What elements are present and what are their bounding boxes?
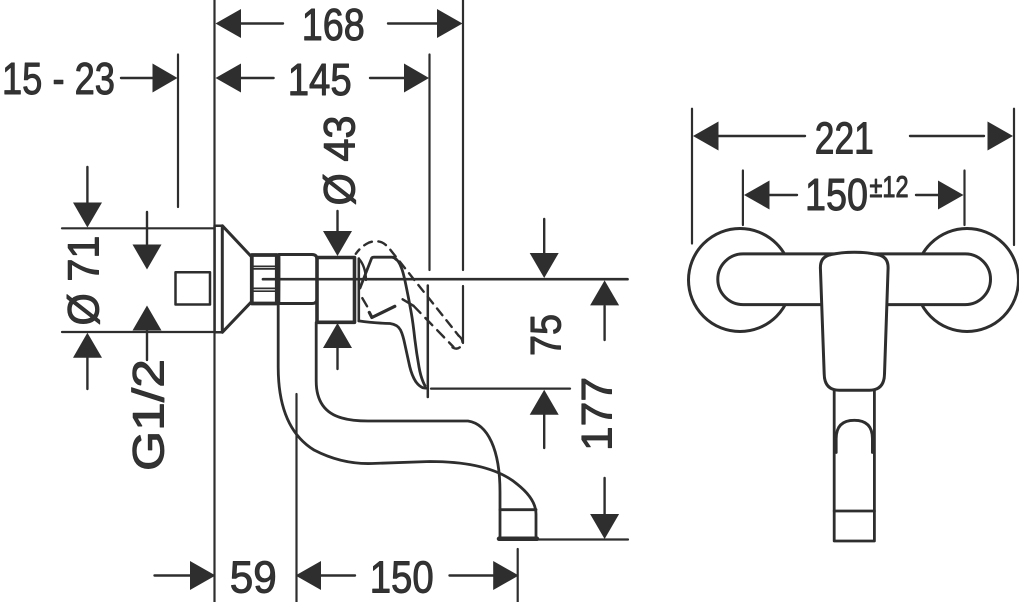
escutcheon cone bbox=[222, 226, 252, 333]
handle dashed raised-position upper edge bbox=[356, 241, 459, 335]
handle front vertical edge bbox=[427, 286, 430, 398]
extension line wall/168-145 left (x=214.5) bbox=[213, 0, 215, 602]
extension line 15-23 left (x=178) bbox=[177, 55, 179, 208]
dimension 15-23 arrow bbox=[153, 64, 178, 93]
handle dashed raised-position lower edge bbox=[403, 299, 414, 306]
extension line 221 left (x=692) bbox=[691, 109, 693, 244]
svg-text:177: 177 bbox=[574, 377, 622, 451]
dimension 150+-12 line bbox=[770, 194, 797, 196]
dimension 150 arrow left (points left at x=296.5) bbox=[296, 561, 322, 590]
spout pipe and outlet outer edge bbox=[278, 304, 536, 540]
extension line 150+-12 left (x=742.9) bbox=[742, 171, 744, 226]
aerator separation line bbox=[500, 508, 536, 511]
cartridge housing bbox=[317, 258, 355, 323]
handle lever grip right edge bbox=[394, 257, 425, 385]
svg-text:G1/2: G1/2 bbox=[125, 359, 174, 471]
svg-text:75: 75 bbox=[523, 314, 571, 356]
escutcheon wall plate bbox=[215, 226, 223, 333]
svg-text:145: 145 bbox=[288, 54, 352, 105]
dimension 59/150 bottom line bbox=[155, 574, 191, 576]
extension line 145 right (x=429.5) bbox=[428, 55, 430, 271]
dimension 150+-12 arrow left bbox=[744, 181, 770, 210]
dimension 15-23 line bbox=[121, 77, 153, 79]
handle lever skirt and beak left edge bbox=[359, 321, 428, 388]
dimension 59 arrow (points right at x=214.5) bbox=[190, 561, 216, 590]
dimension dia43 arrow down bbox=[336, 211, 338, 232]
dimension 168 arrow right bbox=[437, 9, 463, 38]
dimension 177 arrow bottom bbox=[603, 478, 605, 514]
extension line 150+-12 right (x=964.5) bbox=[963, 171, 965, 226]
aerator bottom cap bbox=[499, 537, 537, 542]
aerator line front bbox=[834, 510, 874, 513]
G1/2 stub pipe bbox=[176, 272, 211, 304]
extension line dia71 top (y=228.3) bbox=[62, 227, 215, 229]
extension line handle tip (y=388.6) bbox=[431, 388, 570, 390]
left escutcheon circle bbox=[689, 229, 792, 332]
svg-text:168: 168 bbox=[302, 0, 365, 50]
spout tube front bbox=[834, 385, 874, 541]
svg-text:150: 150 bbox=[805, 169, 868, 220]
handle base edge bbox=[357, 259, 360, 321]
dimension G1/2 arrow down bbox=[146, 212, 148, 246]
svg-text:150: 150 bbox=[370, 552, 434, 602]
dimension 221 line bbox=[718, 135, 806, 137]
svg-text:Ø 71: Ø 71 bbox=[60, 236, 109, 326]
dimension 168 arrow left bbox=[216, 9, 242, 38]
handle dashed end cap bbox=[453, 336, 463, 349]
handle lever top edge and left slant bbox=[360, 257, 396, 288]
dimension 221 arrow left bbox=[693, 122, 719, 151]
handle base dome arc bbox=[359, 259, 366, 280]
dimension 75 arrow top bbox=[543, 219, 545, 255]
body capsule bar bbox=[718, 254, 991, 305]
extension line 150 left (x=296.5) bbox=[295, 394, 297, 602]
svg-text:Ø 43: Ø 43 bbox=[316, 116, 365, 206]
dimension 168 line bbox=[240, 22, 283, 24]
spout tube dome arch bbox=[836, 420, 872, 452]
svg-text:59: 59 bbox=[230, 552, 277, 602]
spout pipe and outlet inner edge bbox=[316, 323, 500, 540]
dimension 150 arrow right (points right at x=517.7) bbox=[493, 561, 519, 590]
svg-text:221: 221 bbox=[815, 113, 874, 164]
dimension 145 arrow left bbox=[216, 64, 242, 93]
handle dashed raised-position lower edge start dash bbox=[362, 298, 367, 306]
extension line 221 right (x=1014) bbox=[1013, 109, 1015, 245]
dimension 145 line bbox=[241, 77, 274, 79]
handle front bbox=[820, 252, 888, 390]
dimension dia71 arrow up bbox=[86, 356, 88, 389]
centerline axis (y=279.2) bbox=[263, 278, 628, 281]
dimension 145 arrow right bbox=[404, 64, 429, 93]
right escutcheon circle bbox=[916, 229, 1019, 332]
dimension 221 arrow right bbox=[988, 122, 1014, 151]
dimension G1/2 arrow up bbox=[146, 329, 148, 360]
body cylinder bbox=[279, 255, 317, 304]
extension line 150 right (x=517.7) bbox=[517, 549, 519, 602]
dimension 75 arrow bottom bbox=[543, 413, 545, 448]
extension line 168 right (x=463) bbox=[462, 0, 464, 270]
handle inner check line bbox=[369, 306, 395, 317]
dimension dia71 arrow down bbox=[86, 167, 88, 204]
dimension 177 arrow top bbox=[603, 306, 605, 340]
connection nut bbox=[252, 255, 277, 304]
dimension dia43 arrow up bbox=[336, 348, 338, 369]
dimension 150+-12 arrow right bbox=[938, 181, 964, 210]
extension line aerator bottom (y=539.5) bbox=[536, 538, 628, 540]
svg-text:15 - 23: 15 - 23 bbox=[2, 53, 115, 104]
extension line dia71 bottom (y=332) bbox=[62, 331, 215, 333]
svg-text:±12: ±12 bbox=[870, 171, 909, 204]
